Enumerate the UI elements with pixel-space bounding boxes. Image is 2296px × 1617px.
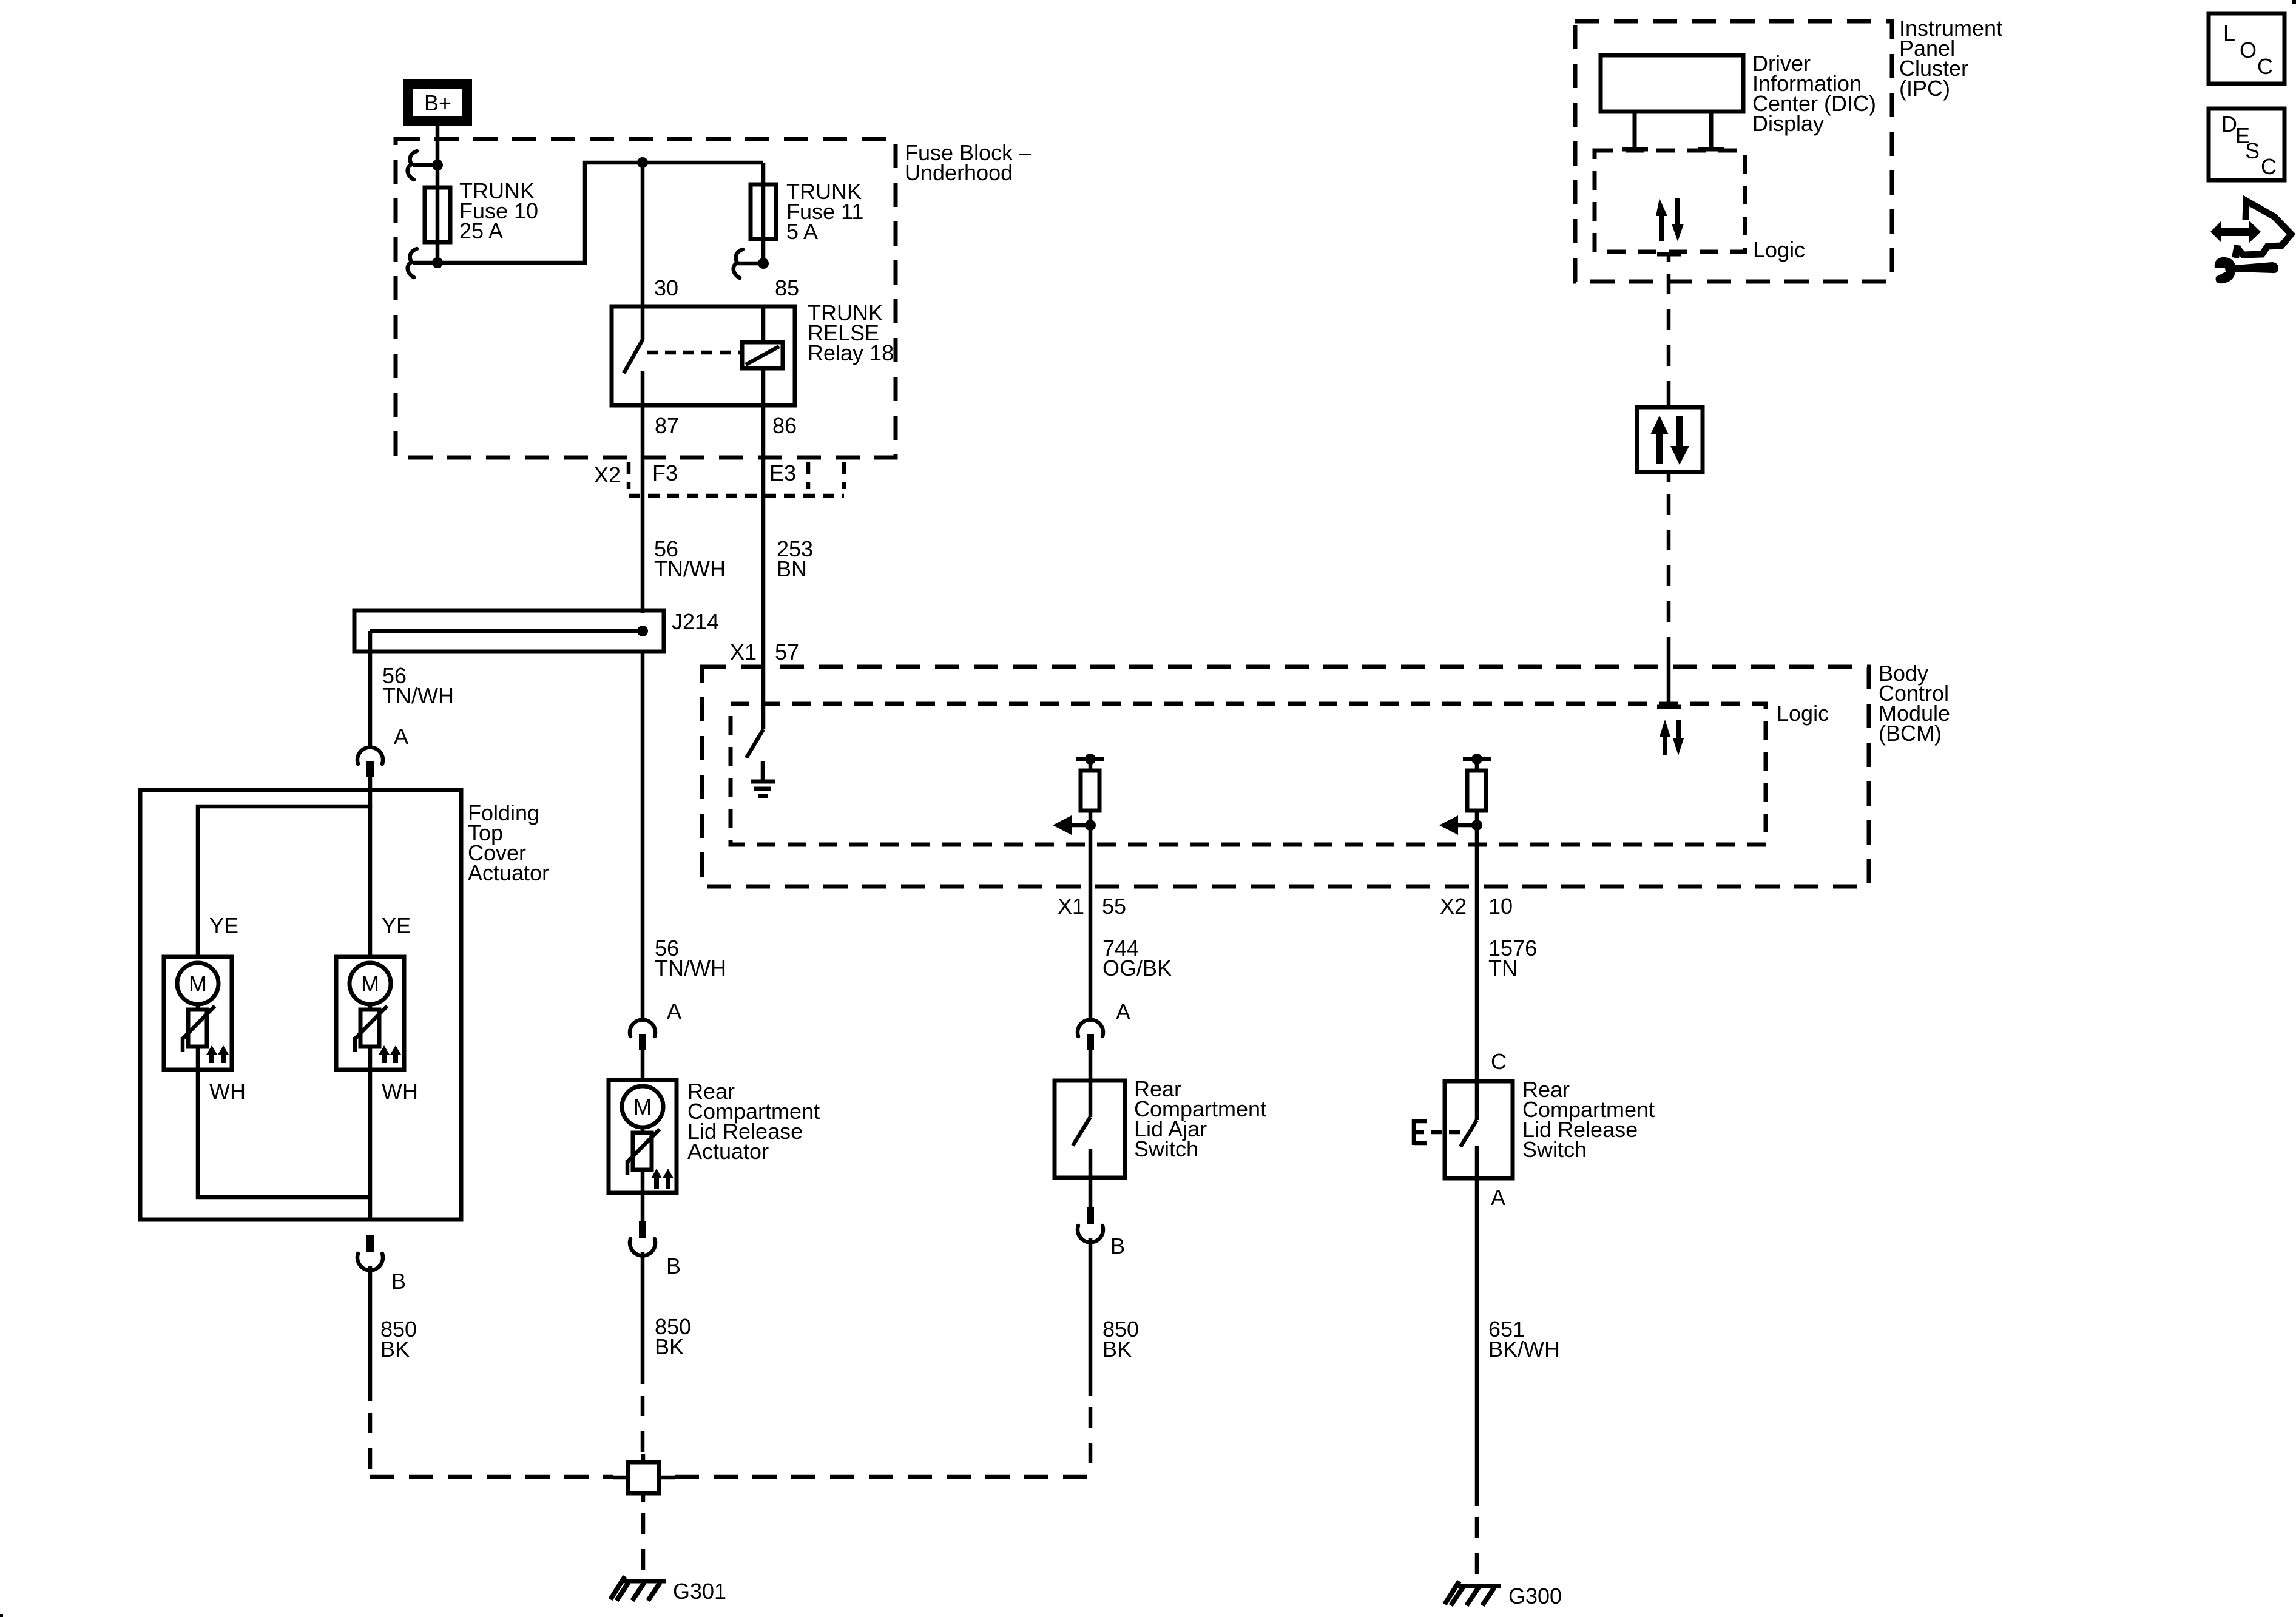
svg-text:B: B <box>391 1269 406 1294</box>
IPC serial data terminal <box>1657 254 1681 262</box>
wire A into folding top box <box>368 777 373 807</box>
motor 1 folding top cover actuator <box>164 957 232 1070</box>
serial data interface box with up down arrows <box>1637 407 1703 472</box>
battery positive voltage B+ box <box>403 79 472 126</box>
fuse 10 bottom terminal clip and junction <box>408 249 443 277</box>
wire BCM X2 10 down to lid release switch <box>1475 845 1479 1081</box>
svg-text:WH: WH <box>209 1079 246 1104</box>
svg-text:OG/BK: OG/BK <box>1102 956 1172 981</box>
wire A into ajar switch <box>1089 1050 1093 1081</box>
svg-text:Actuator: Actuator <box>687 1139 769 1164</box>
svg-text:B+: B+ <box>424 90 451 115</box>
service icon wrench <box>2215 257 2278 283</box>
svg-text:YE: YE <box>382 913 411 938</box>
label Rear Compartment Lid Ajar Switch <box>1134 1076 1266 1161</box>
fuse 11 bottom terminal clip and junction <box>734 249 769 278</box>
svg-text:Underhood: Underhood <box>905 160 1013 185</box>
lid release switch blade <box>1460 1081 1477 1178</box>
connector B lid release actuator <box>630 1221 655 1255</box>
Rear Compartment Lid Release Switch box <box>1445 1081 1513 1178</box>
svg-text:G301: G301 <box>673 1579 726 1604</box>
svg-text:Logic: Logic <box>1777 701 1829 726</box>
svg-text:5 A: 5 A <box>786 219 818 244</box>
label Body Control Module (BCM) <box>1879 661 1950 746</box>
svg-text:S: S <box>2245 138 2260 163</box>
svg-text:M: M <box>633 1095 652 1119</box>
ground splice box <box>613 1454 675 1502</box>
svg-text:BN: BN <box>777 556 807 581</box>
svg-text:YE: YE <box>209 913 238 938</box>
dashed serial data wire IPC to interface box <box>1667 262 1671 397</box>
svg-text:A: A <box>1116 999 1130 1024</box>
svg-text:C: C <box>1491 1049 1507 1074</box>
wire B+ down to fuse 10 <box>436 126 440 161</box>
lid ajar switch blade <box>1073 1081 1090 1209</box>
svg-text:Display: Display <box>1752 111 1824 136</box>
svg-text:TN/WH: TN/WH <box>655 956 726 981</box>
Driver Information Center DIC Display box <box>1601 55 1743 149</box>
dashed serial data wire interface box to BCM <box>1667 472 1671 482</box>
wire label 56 TN/WH middle <box>655 936 726 981</box>
BCM pull-up sensing input for lid ajar switch <box>1053 754 1104 845</box>
svg-text:M: M <box>189 971 207 996</box>
ground G300 symbol <box>1445 1581 1501 1605</box>
svg-text:WH: WH <box>382 1079 418 1104</box>
label X1 55 <box>1058 894 1126 919</box>
svg-text:X1: X1 <box>730 640 757 664</box>
relay lower contact to pin 87 <box>641 371 645 405</box>
fuse TRUNK Fuse 11 5A <box>751 163 863 265</box>
wire J214 branch left <box>368 631 373 748</box>
wire fuse 10 to relay pin 30 and fuse 11 <box>437 163 763 263</box>
fuse TRUNK Fuse 10 25A <box>425 165 538 243</box>
svg-text:Switch: Switch <box>1134 1136 1198 1161</box>
svg-text:86: 86 <box>772 413 797 438</box>
svg-text:C: C <box>2261 154 2277 179</box>
wire motors join to B <box>198 1070 370 1220</box>
service icon panel stub <box>2235 245 2238 258</box>
dashed ground wire from lid ajar B <box>1089 1396 1093 1477</box>
wire label 253 BN <box>777 536 813 581</box>
up arrow IPC logic <box>1656 198 1667 241</box>
fuse 10 top terminal clip and junction <box>408 151 443 180</box>
svg-text:L: L <box>2223 21 2235 46</box>
down arrow IPC logic <box>1672 198 1684 241</box>
wire label 744 OG/BK <box>1102 936 1172 981</box>
wire relay 87 down through connector F3 to J214 <box>641 405 645 613</box>
svg-text:85: 85 <box>775 275 799 300</box>
svg-text:TN: TN <box>1488 956 1518 981</box>
svg-text:25 A: 25 A <box>459 218 503 243</box>
svg-text:Logic: Logic <box>1753 237 1805 262</box>
svg-text:Relay 18: Relay 18 <box>808 340 894 365</box>
ground symbol inside BCM <box>751 761 775 796</box>
motor 2 folding top cover actuator <box>336 957 404 1070</box>
wire label 651 BK/WH <box>1488 1317 1560 1362</box>
Fuse Block - Underhood dashed box <box>396 139 896 457</box>
svg-text:X1: X1 <box>1058 894 1084 919</box>
up arrow BCM logic <box>1660 720 1670 755</box>
ground G301 symbol <box>610 1576 666 1601</box>
wire ajar B down to ground bus <box>1089 1238 1093 1396</box>
svg-text:F3: F3 <box>652 461 678 485</box>
svg-text:A: A <box>667 999 681 1024</box>
svg-text:B: B <box>666 1254 681 1278</box>
svg-text:TN/WH: TN/WH <box>382 683 454 708</box>
BCM pull-up sensing input for lid release switch <box>1439 754 1491 845</box>
BCM serial data terminal with up down arrows <box>1657 658 1681 707</box>
svg-text:87: 87 <box>655 413 679 438</box>
svg-text:30: 30 <box>654 275 678 300</box>
label Driver Information Center (DIC) Display <box>1752 51 1876 136</box>
svg-text:Actuator: Actuator <box>468 860 549 885</box>
service icon double arrow <box>2210 221 2261 243</box>
relay TRUNK RELSE Relay 18 box <box>612 306 795 405</box>
dashed wire splice to G301 <box>641 1502 646 1580</box>
svg-text:Switch: Switch <box>1522 1137 1587 1162</box>
label Instrument Panel Cluster (IPC) <box>1899 16 2002 101</box>
svg-text:X2: X2 <box>1440 894 1467 919</box>
wire actuator to B <box>641 1193 645 1222</box>
relay actuation dashed line <box>647 351 741 355</box>
down arrow BCM logic <box>1673 720 1684 755</box>
svg-text:(BCM): (BCM) <box>1879 721 1942 746</box>
wire junction down to relay pin 30 <box>641 163 645 306</box>
svg-text:BK/WH: BK/WH <box>1488 1337 1560 1362</box>
wire B down to ground splice <box>641 1252 645 1384</box>
svg-text:55: 55 <box>1102 894 1126 919</box>
IPC logic dashed box <box>1595 150 1745 252</box>
motor Rear Compartment Lid Release Actuator <box>609 1080 677 1193</box>
label Rear Compartment Lid Release Switch <box>1522 1077 1655 1162</box>
label TRUNK RELSE Relay 18 <box>808 300 894 365</box>
relay coil <box>742 306 783 405</box>
connector A lid release actuator <box>630 1020 655 1050</box>
switch manual actuation E symbol <box>1414 1119 1464 1145</box>
connector A lid ajar switch <box>1078 1020 1103 1050</box>
svg-text:M: M <box>361 971 379 996</box>
svg-text:E3: E3 <box>769 461 796 485</box>
wire label 850 BK left <box>380 1317 417 1362</box>
wire B down to ground bus <box>368 1266 373 1401</box>
connector X2 dashed cavity box <box>629 462 844 496</box>
wire BCM X1 55 down to lid ajar switch <box>1089 845 1093 1020</box>
svg-text:(IPC): (IPC) <box>1899 76 1950 101</box>
LOC legend box top right <box>2209 13 2284 84</box>
dashed wire release switch to G300 <box>1475 1506 1479 1586</box>
Folding Top Cover Actuator box <box>140 790 461 1220</box>
wire label 850 BK middle <box>655 1314 691 1359</box>
wire label 850 BK right <box>1102 1317 1139 1362</box>
wire relay 86 down through connector E3 to BCM X1 57 <box>761 405 766 729</box>
Body Control Module BCM dashed box <box>702 667 1869 886</box>
page corner mark bottom left <box>0 1614 3 1617</box>
label X1 57 at BCM top <box>730 640 799 664</box>
svg-text:A: A <box>394 724 408 749</box>
svg-text:TN/WH: TN/WH <box>654 556 726 581</box>
dashed ground wire from folding top B <box>368 1401 373 1479</box>
svg-text:J214: J214 <box>672 609 719 634</box>
svg-text:10: 10 <box>1488 894 1513 919</box>
connector A folding top actuator <box>357 748 383 777</box>
wire J214 down to lid release actuator A <box>641 652 645 1020</box>
svg-text:B: B <box>1110 1234 1125 1258</box>
svg-text:C: C <box>2257 54 2273 79</box>
svg-text:X2: X2 <box>594 462 621 487</box>
label Rear Compartment Lid Release Actuator <box>687 1079 820 1164</box>
dashed ground wire from lid release actuator B <box>641 1384 645 1456</box>
svg-text:G300: G300 <box>1508 1584 1562 1609</box>
label Folding Top Cover Actuator <box>468 800 549 885</box>
svg-text:BK: BK <box>655 1334 684 1359</box>
BCM logic dashed box <box>731 704 1766 845</box>
svg-text:BK: BK <box>380 1337 410 1362</box>
wire branch to both motors <box>198 806 370 957</box>
label Fuse Block - Underhood <box>905 140 1031 185</box>
wire label 1576 TN <box>1488 936 1537 981</box>
Instrument Panel Cluster IPC dashed box <box>1575 21 1892 282</box>
wire label 56 TN/WH <box>654 536 726 581</box>
svg-text:57: 57 <box>775 640 799 664</box>
connector B lid ajar switch <box>1078 1207 1103 1242</box>
page corner mark top right <box>2292 0 2296 4</box>
BCM internal switch to ground from X1 57 <box>746 729 763 758</box>
dashed ground bus splice to ajar wire <box>675 1475 1090 1479</box>
relay switch blade <box>624 306 643 373</box>
wire release switch A down to G300 <box>1475 1178 1479 1506</box>
node junction at relay 30 feed <box>637 157 648 168</box>
dashed ground bus to G301 splice <box>370 1475 613 1479</box>
wire label 56 TN/WH left branch <box>382 663 454 708</box>
connector B folding top actuator <box>357 1235 383 1270</box>
svg-text:A: A <box>1491 1185 1505 1210</box>
DESC legend box <box>2209 109 2284 180</box>
splice pack J214 <box>354 610 664 652</box>
wire A into actuator <box>641 1050 645 1080</box>
svg-text:O: O <box>2240 38 2257 62</box>
svg-text:BK: BK <box>1102 1337 1132 1362</box>
label X2 10 <box>1440 894 1513 919</box>
service icon panel outline <box>2239 201 2291 255</box>
Rear Compartment Lid Ajar Switch box <box>1055 1081 1125 1178</box>
